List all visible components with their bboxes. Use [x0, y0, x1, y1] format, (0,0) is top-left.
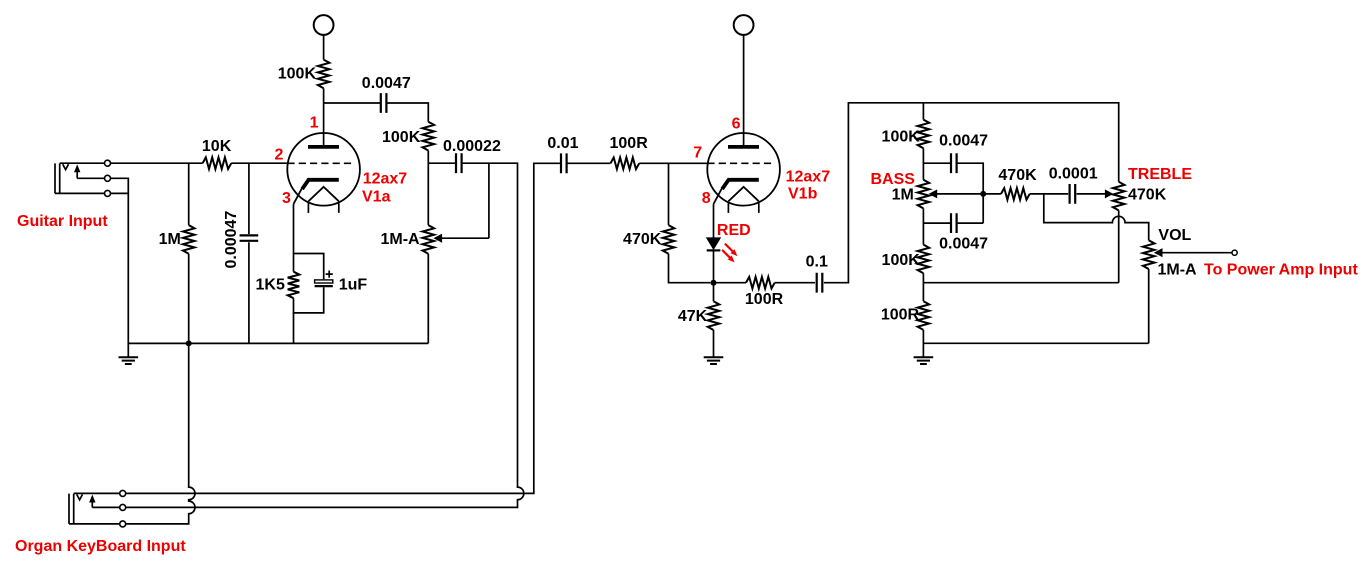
V1a plate (anode) bar — [308, 145, 339, 149]
wire 470K to cathode node — [669, 254, 711, 283]
svg-text:BASS: BASS — [871, 171, 916, 188]
power supply terminal B+ (V1a) — [314, 15, 334, 35]
svg-text:100K: 100K — [382, 129, 421, 146]
wire bass pot to lower node — [922, 208, 924, 244]
wire C1 to R2 top — [387, 103, 428, 122]
svg-text:100R: 100R — [610, 135, 649, 152]
pot VR1 1M-A (volume, element) — [423, 225, 435, 254]
organ jack contact 2 — [120, 504, 126, 510]
LED light arrows — [722, 244, 733, 258]
capacitor C7 0.0047 (bass upper) — [951, 153, 957, 173]
svg-text:V1b: V1b — [788, 186, 818, 203]
wire R11 to mid node — [922, 273, 924, 301]
resistor R5 1K5 (cathode) — [288, 272, 300, 299]
wire R2 to output node — [427, 151, 429, 164]
wire R1 to V1a plate (node at y=103) — [323, 88, 325, 145]
bracket top 1K5/1uF — [294, 254, 324, 280]
resistor R10 100K (tone stack upper) — [918, 120, 930, 149]
wire 10K to V1a grid — [231, 162, 287, 164]
LED D1 (red) symbol — [707, 238, 721, 249]
pot VR2 wiper arrow — [930, 190, 937, 197]
svg-text:8: 8 — [702, 190, 711, 207]
V1b heater filament — [728, 187, 758, 201]
junction dot ground bus — [186, 340, 192, 346]
svg-text:0.1: 0.1 — [806, 254, 828, 271]
svg-text:470K: 470K — [998, 167, 1037, 184]
pot VR4 wiper arrow — [1155, 249, 1162, 256]
wire jack tip to 10K — [110, 162, 202, 164]
wire jack switch to ground rail — [110, 178, 128, 357]
wire C7 to wiper riser — [958, 163, 984, 223]
wire R9 to C6 — [775, 282, 815, 284]
capacitor C8 0.0047 (bass lower) — [951, 213, 957, 233]
wire LED to cathode junction — [713, 250, 715, 301]
wire 47K to ground — [713, 330, 715, 357]
wire 1K5 to ground bus — [293, 313, 295, 344]
wire mid node to treble bottom — [923, 282, 1118, 284]
pot VR3 470K (treble, element) — [1113, 182, 1125, 211]
capacitor C6 0.1 (tone stack coupling) — [817, 273, 823, 293]
svg-text:100R: 100R — [881, 306, 920, 323]
V1b tube envelope — [707, 133, 780, 206]
wire output node to pot — [427, 163, 429, 225]
svg-text:470K: 470K — [1128, 187, 1167, 204]
capacitor C5 0.01 (coupling) — [561, 153, 567, 173]
svg-text:12ax7: 12ax7 — [363, 171, 408, 188]
wire B+ to R1 — [323, 35, 325, 60]
wire R10 to bass pot — [922, 148, 924, 179]
svg-text:0.00022: 0.00022 — [443, 138, 501, 155]
organ jack contact 1 — [120, 490, 126, 496]
wire to C2 — [248, 163, 250, 234]
resistor R8 47K (cathode load) — [708, 301, 720, 330]
resistor R2 100K (grid leak) — [423, 122, 435, 151]
svg-text:1K5: 1K5 — [256, 276, 285, 293]
resistor R9 100R (output build-out) — [746, 277, 775, 289]
jack contact 1 (tip) — [105, 160, 111, 166]
svg-text:3: 3 — [282, 190, 291, 207]
wire pot bottom to ground bus — [427, 254, 429, 344]
wire C5 to R6 — [567, 162, 610, 164]
V1a tube envelope — [287, 133, 360, 206]
wire organ tip to 0.01 (net A) — [126, 163, 561, 493]
capacitor C4 0.00022 (coupling) — [456, 153, 462, 173]
wire B+ to V1b plate — [743, 35, 745, 146]
wire R13 to C9 — [1030, 193, 1069, 195]
svg-text:47K: 47K — [678, 308, 708, 325]
wire to 1M — [188, 163, 190, 225]
output terminal — [1232, 250, 1237, 255]
wire wiper riser — [488, 163, 490, 238]
wire cathode to 1K5 — [293, 254, 295, 272]
resistor R6 100R (grid stopper) — [611, 158, 640, 170]
guitar input jack body — [55, 163, 60, 193]
V1b cathode bar with lead — [722, 180, 759, 189]
svg-text:6: 6 — [732, 116, 741, 133]
wire C6 to tone stack top rail — [824, 103, 1119, 283]
capacitor C2 0.00047 (bright cap) — [240, 235, 259, 240]
svg-text:V1a: V1a — [362, 188, 391, 205]
V1a cathode bar with lead — [302, 180, 339, 189]
wire VOL bottom to ground rail — [1148, 269, 1150, 343]
wire R6 to V1b grid — [639, 162, 707, 164]
svg-text:1uF: 1uF — [339, 276, 368, 293]
organ jack switch wire — [92, 506, 120, 508]
svg-text:100K: 100K — [882, 129, 921, 146]
jack tip mark V — [63, 164, 69, 169]
bracket bottom 1K5/1uF — [294, 287, 324, 313]
wire C8 right end — [958, 222, 984, 224]
pot VR2 1M (bass, element) — [918, 180, 930, 209]
svg-text:1M-A: 1M-A — [1158, 262, 1198, 279]
wire R12 to ground — [922, 330, 924, 357]
svg-text:Organ KeyBoard Input: Organ KeyBoard Input — [15, 538, 186, 555]
svg-text:10K: 10K — [202, 138, 232, 155]
V1a heater filament — [308, 187, 338, 201]
wire C2 to ground bus — [248, 242, 250, 343]
junction dot cathode node — [711, 280, 717, 286]
svg-text:0.00047: 0.00047 — [223, 211, 240, 269]
organ jack switch arrow — [91, 501, 93, 507]
junction dot bass wiper — [980, 191, 986, 197]
svg-text:To Power Amp Input: To Power Amp Input — [1204, 262, 1358, 279]
svg-text:0.0047: 0.0047 — [939, 133, 988, 150]
ground symbol (V1b cathode) — [704, 357, 724, 364]
svg-text:0.0047: 0.0047 — [362, 75, 411, 92]
wire ground-return to organ sleeve (net C) — [126, 343, 195, 524]
resistor R7 470K (grid leak) — [663, 225, 675, 254]
svg-text:1M-A: 1M-A — [381, 231, 421, 248]
pot VR1 wiper arrow — [435, 235, 442, 242]
svg-text:RED: RED — [717, 222, 751, 239]
resistor R12 100R (tone stack bottom) — [918, 301, 930, 330]
svg-text:2: 2 — [275, 147, 284, 164]
wire C4 to organ jack return (net B) — [126, 163, 524, 507]
svg-text:0.0001: 0.0001 — [1049, 166, 1098, 183]
plus sign (C3 polarity) — [326, 271, 333, 278]
resistor R4 1M (input load) — [183, 225, 195, 254]
jack switch wire — [77, 177, 104, 179]
ground bus stage 1 — [128, 342, 428, 344]
svg-text:12ax7: 12ax7 — [786, 169, 831, 186]
wire node to C8 — [923, 222, 950, 224]
capacitor C1 0.0047 (coupling) — [381, 93, 387, 113]
jack contact 2 (switch) — [105, 175, 111, 181]
wire treble bottom to mid rail — [1118, 210, 1120, 282]
organ jack contact 3 — [120, 521, 126, 527]
organ input jack body — [69, 494, 74, 524]
svg-text:1M: 1M — [159, 231, 181, 248]
wire bottom node to VOL bottom — [923, 342, 1148, 344]
svg-text:470K: 470K — [623, 231, 662, 248]
jack switch arrow — [76, 171, 78, 179]
jack contact 3 (sleeve) — [105, 190, 111, 196]
resistor R11 100K (tone stack lower) — [918, 245, 930, 274]
resistor R13 470K (treble feed) — [1001, 188, 1030, 200]
svg-text:1M: 1M — [892, 187, 914, 204]
wire V1b cathode to LED — [713, 204, 715, 238]
wire C9 to treble wiper arrow — [1077, 193, 1106, 195]
resistor R1 100K (V1a plate load) — [318, 60, 330, 89]
pot VR4 1M-A (master volume, element) — [1143, 240, 1155, 269]
ground symbol (tone stack) — [914, 357, 934, 364]
svg-text:0.0047: 0.0047 — [939, 235, 988, 252]
svg-text:TREBLE: TREBLE — [1128, 166, 1192, 183]
svg-text:100R: 100R — [745, 291, 784, 308]
V1a grid (dashed) — [287, 162, 355, 164]
svg-text:100K: 100K — [278, 65, 317, 82]
V1b grid (dashed) — [707, 162, 775, 164]
capacitor C9 0.0001 (treble cap) — [1070, 184, 1076, 204]
wire node to C4 — [428, 162, 455, 164]
V1b plate (anode) bar — [728, 145, 759, 149]
wire V1a cathode down — [293, 204, 295, 253]
svg-text:1: 1 — [310, 115, 319, 132]
organ jack tip mark V — [77, 494, 83, 499]
svg-text:7: 7 — [693, 144, 702, 161]
resistor R3 10K (grid stopper) — [203, 157, 232, 169]
wire plate node to C1 — [324, 102, 381, 104]
wire R13 tap to VOL top (hump over treble) — [1044, 194, 1149, 240]
wire junction to R9 — [714, 282, 747, 284]
ground symbol (input) — [119, 357, 139, 364]
wire top rail to 100K — [922, 103, 924, 120]
svg-text:VOL: VOL — [1158, 227, 1191, 244]
power supply terminal B+ (V1b) — [734, 15, 754, 35]
wire node to C7 — [923, 162, 950, 164]
wire 1M to ground bus — [188, 254, 190, 344]
svg-text:Guitar Input: Guitar Input — [17, 213, 108, 230]
capacitor C3 1uF (cathode bypass, electrolytic) — [315, 280, 333, 283]
svg-text:100K: 100K — [882, 252, 921, 269]
wire grid node to 470K — [668, 163, 670, 225]
wire bass wiper to 470K — [983, 193, 1001, 195]
svg-text:0.01: 0.01 — [547, 135, 578, 152]
